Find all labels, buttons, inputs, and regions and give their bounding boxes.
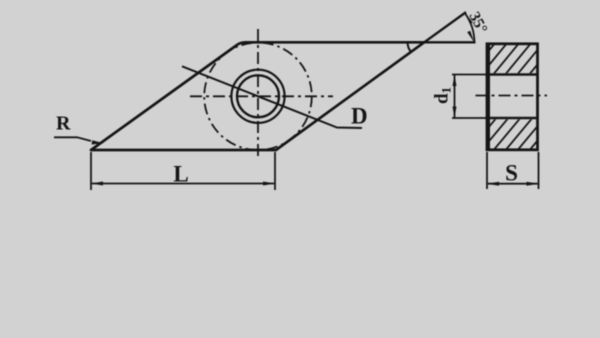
S extension line left (486, 152, 488, 189)
svg-text:D: D (351, 104, 368, 129)
d1 dimension arrowhead bottom (453, 107, 457, 119)
svg-text:L: L (173, 162, 188, 187)
hatch top band (468, 42, 556, 76)
S extension line right (538, 152, 540, 189)
insert top-view outline (parallelogram with rounded corners) (91, 42, 424, 150)
S dimension arrowhead left (487, 182, 499, 186)
35° small angle arc at corner (408, 42, 411, 52)
section left edge (thick) (487, 43, 490, 151)
L dimension arrowhead left (91, 182, 103, 186)
inscribed circle (dash-dot) (204, 43, 312, 151)
L dimension line (92, 183, 274, 185)
d1 dimension arrowhead top (453, 75, 457, 87)
horizontal centerline (190, 95, 333, 97)
d1 extension line bottom (452, 117, 487, 119)
d1 dimension line (454, 75, 456, 118)
svg-text:S: S (505, 161, 518, 186)
hole outer circle (231, 70, 284, 123)
35° dimension arc arrowhead bottom (467, 31, 474, 43)
section hole top line (486, 73, 539, 76)
hatch bottom band (468, 116, 558, 152)
L dimension arrowhead right (263, 182, 275, 186)
section view rectangle (487, 44, 538, 150)
right edge extension line to 35° vertex (424, 12, 466, 42)
top edge extension line (424, 41, 475, 43)
L extension line left (90, 152, 92, 190)
D diameter line with tail (182, 66, 362, 128)
svg-text:R: R (56, 113, 71, 135)
R leader line (54, 137, 91, 141)
S dimension line (488, 183, 538, 185)
L extension line right (274, 152, 276, 190)
R leader arrowhead (92, 140, 104, 144)
vertical centerline (257, 29, 259, 159)
S dimension arrowhead right (527, 182, 539, 186)
section horizontal centerline (476, 95, 548, 97)
35° dimension arc arrowhead top (465, 13, 473, 24)
35° dimension arc (465, 13, 475, 42)
d1 extension line top (452, 74, 487, 76)
hole inner circle (237, 75, 279, 117)
section hole bottom line (486, 117, 539, 120)
